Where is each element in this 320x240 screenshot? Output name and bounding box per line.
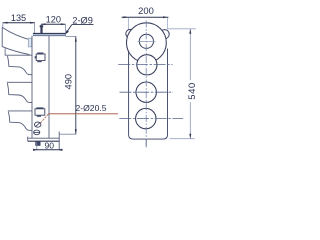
label 2-Ø9 leader <box>66 25 72 34</box>
circle 4 centerline <box>119 118 183 120</box>
bottom centerline tick <box>145 139 147 147</box>
dimension 540 text background <box>186 80 197 102</box>
plate outline <box>129 49 168 140</box>
shed unit 1 tip tick <box>4 48 6 55</box>
dimension 135 left extension tick <box>2 23 4 28</box>
mid-body bolt cap <box>37 53 43 55</box>
bell mouth left edge <box>1 27 3 46</box>
mid-body bolt lower tab <box>37 61 41 63</box>
svg-text:490: 490 <box>64 74 74 90</box>
dimension 135 line <box>3 22 35 24</box>
body right edge <box>48 36 50 139</box>
shed unit 1 underside profile <box>8 56 33 75</box>
svg-text:135: 135 <box>11 13 26 23</box>
dimension 540 top extension <box>167 28 196 30</box>
hole circle 3 <box>136 82 156 102</box>
svg-text:200: 200 <box>138 5 154 16</box>
terminal bolt above flange <box>40 25 42 33</box>
lower bolt cap <box>36 107 43 109</box>
ring outer circle <box>126 23 166 63</box>
dimension 540 bottom extension <box>170 138 195 140</box>
dimension 120 right arrow <box>61 23 66 25</box>
dimension 490 top arrow <box>75 37 77 42</box>
dimension 200 left arrow <box>124 16 129 18</box>
dimension 200 left extension <box>128 18 130 48</box>
top flange right edge <box>64 33 66 36</box>
top flange top line <box>33 33 66 35</box>
svg-text:2-Ø9: 2-Ø9 <box>72 15 92 25</box>
left ear boss <box>126 29 135 38</box>
right ear boss <box>160 30 169 39</box>
ring horizontal centerline <box>138 40 156 42</box>
dimension 120 line <box>41 23 66 25</box>
extension line at flange underside <box>66 35 76 37</box>
dimension 135 right extension tick <box>34 23 36 33</box>
bolt tab below plate <box>35 141 40 146</box>
dimension 200 line <box>122 16 169 18</box>
terminal bolt head <box>40 25 44 27</box>
washer symbol 2 <box>34 130 40 135</box>
label 2-Ø9 leader arrowhead <box>65 30 69 34</box>
washer symbol 1 slash <box>35 122 40 126</box>
dimension 90 line <box>33 149 63 151</box>
dimension 90 right arrow <box>59 149 63 151</box>
hole circle 4 <box>136 108 156 128</box>
label 2-Ø9 underline <box>72 24 94 26</box>
extension line above bottom plate <box>59 133 76 135</box>
dimension 490 line <box>75 37 77 135</box>
hole circle 2 (top, under ring) <box>137 55 157 75</box>
svg-text:90: 90 <box>45 141 55 151</box>
washer symbol 1 <box>35 122 41 127</box>
vertical centerline <box>145 21 147 148</box>
svg-text:2-Ø20.5: 2-Ø20.5 <box>75 103 106 113</box>
bell bottom curve <box>2 47 29 55</box>
label 2-Ø20.5 underline <box>48 113 118 115</box>
dimension 90 left arrow <box>33 149 37 151</box>
dimension 540 line <box>189 29 191 139</box>
washer symbol 2 slash <box>34 131 40 133</box>
top flange fill <box>33 33 65 35</box>
bottom plate bottom line <box>28 140 60 142</box>
lower bolt lower tab <box>37 115 41 117</box>
label 2-Ø20.5 leader diagonal <box>41 114 49 123</box>
circle 2 centerline <box>118 64 172 66</box>
circle 3 centerline <box>120 91 174 93</box>
mid-body bolt left tab <box>35 56 37 58</box>
dimension 200 right extension <box>166 18 168 30</box>
dimension 120 left arrow <box>41 23 46 25</box>
top flange bottom line <box>33 35 66 37</box>
bottom plate left lip <box>27 137 29 142</box>
bottom plate top line <box>28 137 60 139</box>
svg-text:540: 540 <box>187 82 198 100</box>
dimension 540 bottom arrow <box>189 134 191 139</box>
lower bolt box <box>35 109 45 115</box>
shed unit 2 top line <box>7 81 32 83</box>
dimension 490 bottom arrow <box>75 129 77 134</box>
svg-text:120: 120 <box>46 14 61 24</box>
bell neck band <box>28 38 31 47</box>
shed unit 3 top line <box>8 110 32 112</box>
dimension 90 left extension <box>36 142 38 150</box>
shed unit 1 top line <box>5 54 32 56</box>
bracket step vertical <box>58 132 60 151</box>
body left edge <box>31 36 33 139</box>
shed unit 2 underside profile <box>7 83 32 102</box>
shed unit 3 underside profile <box>8 112 32 131</box>
ring inner circle <box>139 34 153 48</box>
mid-body bolt box <box>36 54 45 61</box>
bell top curve <box>2 27 32 40</box>
dimension 200 right arrow <box>163 16 167 18</box>
dimension 120 right extension <box>64 24 66 33</box>
dimension 135 left arrow <box>3 22 8 24</box>
dimension 135 right arrow <box>30 22 35 24</box>
dimension 540 top arrow <box>189 29 191 34</box>
